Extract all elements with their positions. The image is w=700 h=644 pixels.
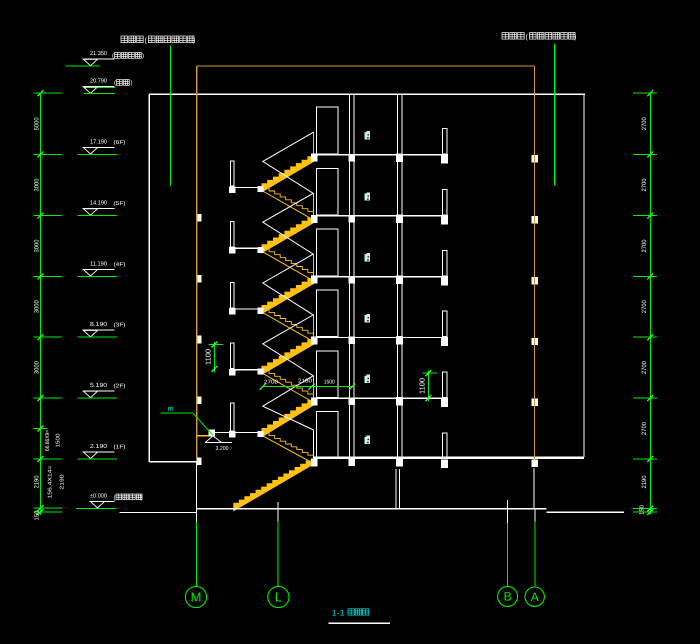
room labels (cyan) xyxy=(364,131,370,139)
svg-text:): ) xyxy=(574,33,576,41)
svg-text:5000: 5000 xyxy=(34,117,41,131)
half landing 3 xyxy=(236,308,258,310)
svg-text:2180: 2180 xyxy=(298,378,312,384)
svg-text:2700: 2700 xyxy=(641,421,648,435)
svg-text:5.190: 5.190 xyxy=(90,382,108,389)
svg-text:21.350: 21.350 xyxy=(90,50,108,57)
svg-text:2700: 2700 xyxy=(264,379,278,385)
elev marker 8.190 3F xyxy=(83,329,115,331)
flight behind 2 xyxy=(264,249,314,276)
axis bubble A xyxy=(525,587,544,606)
svg-text:1100: 1100 xyxy=(418,378,427,394)
elev marker 14.190 5F xyxy=(83,208,115,210)
svg-text:3000: 3000 xyxy=(34,178,41,192)
stair windows xyxy=(316,107,338,154)
svg-text:1100: 1100 xyxy=(204,349,213,365)
svg-text:20.790: 20.790 xyxy=(90,78,108,85)
svg-text:): ) xyxy=(193,37,195,45)
flight up 3 (cut) xyxy=(262,279,314,314)
svg-text:(4F): (4F) xyxy=(114,262,126,268)
svg-text:1500: 1500 xyxy=(56,434,62,448)
elev marker 21.350 xyxy=(83,58,115,60)
svg-text:150: 150 xyxy=(639,504,646,515)
beams at flight head xyxy=(311,154,318,162)
svg-text:(: ( xyxy=(114,80,116,87)
floor slab lines xyxy=(316,154,448,156)
svg-text:(2F): (2F) xyxy=(114,384,126,390)
stair railing zigzag xyxy=(263,132,314,430)
svg-text:156.4X14=: 156.4X14= xyxy=(48,466,54,499)
wall A orange overdraw xyxy=(534,150,536,460)
slab 1F left unit xyxy=(149,461,197,463)
flight up 1 (cut) xyxy=(262,157,314,192)
ground line outdoor left xyxy=(119,511,196,513)
svg-text:A: A xyxy=(531,590,539,604)
elev marker 2.190 1F xyxy=(83,451,115,453)
svg-text:3.200: 3.200 xyxy=(216,445,229,452)
beams on wall W350 xyxy=(349,154,356,162)
svg-text:): ) xyxy=(131,80,133,87)
parapet top (orange) xyxy=(197,65,535,67)
beams on wall A xyxy=(531,155,538,162)
svg-text:(: ( xyxy=(114,495,116,502)
label party wall right + leader xyxy=(502,33,509,40)
roof slab line xyxy=(149,93,585,95)
svg-text:2190: 2190 xyxy=(641,475,648,489)
landing edge beams xyxy=(229,186,236,193)
stair door 1F xyxy=(316,412,338,459)
svg-text:2700: 2700 xyxy=(641,239,648,253)
svg-text:14.190: 14.190 xyxy=(90,200,108,207)
svg-text:±0.000: ±0.000 xyxy=(90,492,108,499)
beams on wall W443 xyxy=(441,155,448,164)
party wall M (orange) xyxy=(196,66,198,458)
entrance flight xyxy=(234,461,312,511)
half landing 5 xyxy=(197,435,211,437)
beams on wall M xyxy=(196,214,201,222)
elev marker 0.000 xyxy=(90,500,115,502)
svg-text:2700: 2700 xyxy=(641,117,648,131)
svg-text:(5F): (5F) xyxy=(114,201,126,207)
svg-text:M: M xyxy=(191,590,202,605)
dim 2700 2180 1500 xyxy=(263,386,353,388)
wall W399 stem a xyxy=(395,469,397,508)
svg-text:(3F): (3F) xyxy=(114,323,126,329)
elev marker 17.190 6F xyxy=(83,146,115,148)
ground line outdoor right xyxy=(547,511,625,513)
svg-text:(: ( xyxy=(112,53,114,60)
flight up 4 (cut) xyxy=(262,340,314,375)
dim 1100 landing xyxy=(214,342,216,372)
flight behind 1 xyxy=(264,188,314,215)
svg-text:3000: 3000 xyxy=(34,239,41,253)
axis bubble L xyxy=(268,586,289,607)
svg-text:3000: 3000 xyxy=(34,361,41,375)
right dimension line xyxy=(649,93,651,514)
wall M orange overdraw xyxy=(196,200,198,458)
elev marker 11.190 4F xyxy=(83,268,115,270)
svg-text:): ) xyxy=(142,53,144,60)
windows on wall W443 xyxy=(443,128,447,154)
svg-text:2700: 2700 xyxy=(641,178,648,192)
axis bubble B xyxy=(498,586,518,606)
ground line indoor xyxy=(197,508,547,510)
railing post 1F xyxy=(313,430,315,458)
flight up 2 (cut) xyxy=(262,218,314,253)
axis A stem xyxy=(533,468,535,508)
svg-text:): ) xyxy=(141,495,143,502)
flight up 5 (cut) xyxy=(262,400,314,436)
beams on wall W399 xyxy=(396,153,403,162)
label party wall left + leader xyxy=(121,36,128,43)
slab 1F right xyxy=(314,456,584,459)
svg-text:m: m xyxy=(168,404,174,413)
flight behind 5 xyxy=(264,433,314,458)
wall W399 stem b xyxy=(399,469,401,508)
svg-text:(6F): (6F) xyxy=(114,140,126,146)
dim 1100 window sill xyxy=(427,371,429,402)
svg-text:2.190: 2.190 xyxy=(90,443,108,450)
svg-text:2190: 2190 xyxy=(60,475,66,490)
railing posts (orange) xyxy=(312,132,314,154)
elev marker 20.790 xyxy=(84,86,115,88)
wall W350 line b xyxy=(353,94,355,458)
svg-text:11.190: 11.190 xyxy=(90,260,108,267)
svg-text:2700: 2700 xyxy=(641,361,648,375)
svg-text:L: L xyxy=(275,590,282,605)
svg-text:3000: 3000 xyxy=(34,300,41,314)
party wall A (orange) xyxy=(534,66,536,460)
axis B line xyxy=(507,500,509,523)
elev marker 3.200 landing xyxy=(205,436,221,443)
elev marker 5.190 2F xyxy=(83,390,115,392)
svg-text:(1F): (1F) xyxy=(114,444,126,450)
wall W350 line a xyxy=(349,94,351,458)
svg-text:2190: 2190 xyxy=(34,475,41,489)
wall W399 line b xyxy=(401,94,403,457)
svg-text:8.190: 8.190 xyxy=(90,321,108,328)
svg-text:1500: 1500 xyxy=(324,380,335,386)
half landing 2 xyxy=(236,247,258,249)
axis A line xyxy=(534,508,536,522)
half landing 4 xyxy=(236,369,258,371)
axis L line xyxy=(277,502,279,522)
svg-text:150: 150 xyxy=(34,510,41,521)
svg-text:2700: 2700 xyxy=(641,300,648,314)
svg-text:1-1: 1-1 xyxy=(332,609,346,618)
svg-text:B: B xyxy=(504,590,512,604)
svg-text:17.190: 17.190 xyxy=(90,138,108,145)
axis bubble M xyxy=(185,586,206,607)
svg-text:66.66X9=: 66.66X9= xyxy=(45,430,51,451)
wall left edge xyxy=(148,94,150,462)
flight behind 3 xyxy=(264,310,314,337)
flight behind 4 xyxy=(264,370,314,397)
wall right edge xyxy=(583,94,585,457)
half landing 1 xyxy=(236,186,258,188)
axis M line xyxy=(196,462,198,522)
left dimension line xyxy=(40,93,42,515)
wall W399 line a xyxy=(396,94,398,457)
